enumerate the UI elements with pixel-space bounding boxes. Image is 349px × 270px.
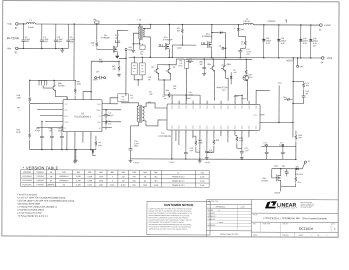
wire margining top <box>272 168 302 170</box>
svg-text:1.0uF: 1.0uF <box>200 185 204 187</box>
svg-text:50x: 50x <box>140 54 143 56</box>
svg-text:F1/N: F1/N <box>97 122 100 124</box>
diode D11 <box>92 150 95 152</box>
ground lower-left <box>75 150 77 159</box>
svg-text:3.3V/20A: 3.3V/20A <box>36 179 44 182</box>
terminal E4 -VOut <box>321 57 324 60</box>
svg-text:COMP: COMP <box>96 110 100 112</box>
svg-text:D6x: D6x <box>296 166 299 168</box>
svg-text:DC1101A-C: DC1101A-C <box>22 183 32 186</box>
title block texts <box>208 200 336 237</box>
capacitor C30 100uF 6.3V <box>262 25 266 58</box>
svg-text:R69: R69 <box>99 172 102 174</box>
svg-text:DC1101A-A: DC1101A-A <box>23 175 33 178</box>
svg-text:R84: R84 <box>143 172 146 174</box>
resistor R67 <box>295 175 297 182</box>
svg-text:C2-C5 1uF 100V TDK C3225X7R2A1: C2-C5 1uF 100V TDK C3225X7R2A105M (1210) <box>17 196 65 199</box>
terminal E5 <box>304 161 306 163</box>
transformer T1 <box>139 27 140 39</box>
wire T2 right bottom <box>142 120 167 126</box>
wire C1B node <box>119 57 126 59</box>
svg-text:C73: C73 <box>148 102 151 104</box>
svg-text:0.039: 0.039 <box>88 176 92 178</box>
svg-text:Q3: Q3 <box>151 67 154 69</box>
inductor L1 1.0uH <box>26 23 35 24</box>
op-amp U1 LTC3723EGN-1 <box>63 100 102 132</box>
svg-text:VDR: VDR <box>274 166 279 168</box>
capacitor C39 220uF 6.3V <box>309 25 313 58</box>
gate comb Q6 <box>115 40 121 43</box>
wire Q6 gate <box>96 40 98 41</box>
capacitor C7B 22nF <box>184 147 188 159</box>
svg-text:n/a: n/a <box>63 184 65 186</box>
capacitor C79 2.2nF <box>240 148 244 156</box>
svg-text:2.2nF: 2.2nF <box>244 150 248 152</box>
svg-text:R59: R59 <box>216 140 219 142</box>
svg-text:R4x: R4x <box>283 97 286 99</box>
svg-text:PA0815-B-5:2:1: PA0815-B-5:2:1 <box>172 180 184 183</box>
wire Q9 to U1 <box>55 91 67 100</box>
svg-text:DWG NO:: DWG NO: <box>283 223 289 225</box>
wire C1B drop <box>125 50 127 95</box>
version table <box>21 170 210 188</box>
U2 top pin stubs <box>171 101 173 104</box>
customer notice box <box>147 201 210 235</box>
capacitor C35 opt <box>303 90 305 94</box>
terminal E3 +VOut <box>320 24 323 27</box>
gate comb Q12 <box>201 42 205 45</box>
capacitor C31 100uF 6.3V <box>277 25 281 58</box>
wire Q8 to U2 <box>213 71 215 101</box>
svg-text:Si7336ADP: Si7336ADP <box>163 38 173 41</box>
svg-text:LTC3723EGN-1: LTC3723EGN-1 <box>74 115 92 118</box>
ground Q6 source <box>116 54 118 56</box>
capacitor C76 47uF <box>205 148 209 156</box>
svg-text:470pF: 470pF <box>35 130 41 132</box>
svg-text:PA0805-A-4:1:1: PA0805-A-4:1:1 <box>172 175 184 178</box>
svg-text:PA0811-A-4:2:1: PA0811-A-4:2:1 <box>172 184 184 187</box>
resistor R52 100 <box>91 60 119 62</box>
svg-text:R48: R48 <box>88 172 91 174</box>
wire bus down to U1 pin <box>29 80 30 81</box>
wire U2 top bus <box>172 94 200 96</box>
resistor R52 <box>186 60 193 62</box>
svg-text:-VOut: -VOut <box>326 57 332 60</box>
svg-text:DC1101A-B: DC1101A-B <box>22 179 32 182</box>
svg-text:2.2uF: 2.2uF <box>200 181 204 183</box>
resistor R48 10R <box>118 61 120 64</box>
svg-text:Fax (408) 434-0507: Fax (408) 434-0507 <box>300 207 312 209</box>
svg-text:PC406: PC406 <box>248 77 253 79</box>
wire margining bottom <box>281 182 296 186</box>
wire output sense drop <box>292 58 294 138</box>
resistor box R54 <box>139 63 145 75</box>
svg-text:CUSTOMER NOTICE: CUSTOMER NOTICE <box>164 203 193 207</box>
svg-text:R5B: R5B <box>179 60 182 62</box>
diode D4B <box>237 25 239 28</box>
wire +VOUT bus lower <box>130 158 295 161</box>
wire T1 primary top lead <box>139 24 141 26</box>
svg-text:SD: SD <box>98 128 100 130</box>
svg-text:COOPER HCP0703-1R0-R: COOPER HCP0703-1R0-R <box>17 210 44 212</box>
svg-text:CHECKED: CHECKED <box>208 213 215 215</box>
svg-text:FS: FS <box>64 128 66 130</box>
capacitor C68 10pF <box>285 169 289 177</box>
svg-text:536: 536 <box>133 185 136 187</box>
wire VCC rail <box>176 58 184 60</box>
svg-text:CMPSH1-4: CMPSH1-4 <box>47 184 56 186</box>
logo address <box>300 201 314 209</box>
svg-text:1.40K: 1.40K <box>140 71 144 73</box>
svg-text:R82: R82 <box>122 172 125 174</box>
transistor Q3 <box>154 68 159 74</box>
opto Q07 PS2801 <box>243 75 248 80</box>
terminal E2 -VIn <box>15 47 18 50</box>
svg-text:OF: OF <box>318 235 320 237</box>
svg-text:250V: 250V <box>134 146 139 148</box>
resistor R6 1.2 <box>244 40 246 45</box>
svg-text:Vout/Iout: Vout/Iout <box>37 171 44 174</box>
U2 right pin stub <box>260 114 264 116</box>
capacitor C4 1.0uF 100V <box>54 24 58 49</box>
svg-text:2490: 2490 <box>17 97 21 99</box>
transistor Q4 <box>166 68 171 74</box>
svg-text:R5x: R5x <box>98 145 101 147</box>
ground C33 <box>129 156 131 159</box>
ground U1 <box>73 160 77 164</box>
svg-text:D1: D1 <box>50 172 52 174</box>
gate comb Q1a <box>158 44 162 47</box>
svg-text:5.0V/20A: 5.0V/20A <box>36 183 44 186</box>
resistor box R56 5.1K <box>118 94 129 102</box>
svg-text:100: 100 <box>108 123 111 125</box>
svg-text:910: 910 <box>154 176 157 178</box>
wire T2 right top <box>142 103 167 108</box>
wire T1 secondary leads <box>143 24 150 28</box>
svg-text:LTC3723EGN-1, LTC3708EGN, 36V: LTC3723EGN-1, LTC3708EGN, 36V - 72Vin Fo… <box>263 217 327 220</box>
svg-text:TECHNOLOGY: TECHNOLOGY <box>277 207 298 209</box>
svg-text:100K: 100K <box>198 142 203 144</box>
svg-text:D28: D28 <box>62 172 65 174</box>
wire T1 tap stub <box>133 33 139 44</box>
svg-text:100: 100 <box>99 62 102 64</box>
svg-text:22nF: 22nF <box>189 150 193 152</box>
svg-text:CMPSH1-4: CMPSH1-4 <box>60 180 69 182</box>
svg-text:10pF: 10pF <box>284 171 288 173</box>
capacitor C3 1.0uF 100V <box>40 24 44 49</box>
svg-text:R6x: R6x <box>298 182 301 184</box>
svg-text:R81: R81 <box>111 172 114 174</box>
svg-text:100V: 100V <box>57 41 62 43</box>
svg-text:R52 0.1: R52 0.1 <box>186 59 192 61</box>
transistor Q8B <box>221 66 226 72</box>
svg-text:512: 512 <box>177 30 180 32</box>
wire left rail <box>29 80 31 95</box>
wire under boxes <box>134 75 142 80</box>
svg-text:1uF: 1uF <box>130 97 133 99</box>
wire T2 left bottom <box>131 122 139 143</box>
svg-text:R83: R83 <box>133 172 136 174</box>
svg-text:PMEG4005: PMEG4005 <box>295 174 303 176</box>
svg-text:C38 Sanyo 6TPE220M: C38 Sanyo 6TPE220M <box>17 203 40 205</box>
svg-text:2.4: 2.4 <box>133 71 135 73</box>
svg-text:604: 604 <box>298 137 301 139</box>
svg-text:CS: CS <box>99 116 101 118</box>
svg-text:R41: R41 <box>77 172 80 174</box>
DNP circle C76b <box>266 144 268 146</box>
transistor Q9B FZT955 <box>51 85 56 91</box>
diode D09 <box>230 76 233 78</box>
svg-text:VCC: VCC <box>178 65 183 67</box>
svg-text:MMBT2722A: MMBT2722A <box>217 86 229 89</box>
wire bias gnd bus <box>295 146 297 159</box>
wire R5B down <box>185 68 187 100</box>
capacitor C5 1.0uF 100V <box>66 24 70 49</box>
notes text <box>17 193 74 218</box>
op-amp U2 LTC3708EGN <box>167 104 260 130</box>
svg-text:15.0K: 15.0K <box>16 132 22 134</box>
title block frame <box>207 199 339 237</box>
svg-text:2.2uF: 2.2uF <box>200 177 204 179</box>
resistor R40 512 <box>181 25 183 27</box>
svg-text:L2 Coil Tronics HC1-R87: L2 Coil Tronics HC1-R87 <box>17 212 42 215</box>
svg-text:R6x: R6x <box>166 90 169 92</box>
svg-text:R5x: R5x <box>133 65 136 67</box>
svg-text:+VOUT: +VOUT <box>241 98 247 100</box>
svg-text:Si7336ADP: Si7336ADP <box>202 35 213 38</box>
terminal TP C37 left <box>95 77 97 79</box>
resistor R59 <box>213 138 215 145</box>
svg-text:100V: 100V <box>43 41 48 43</box>
diode D5 <box>212 32 219 34</box>
svg-text:Si7450DP: Si7450DP <box>101 37 111 39</box>
terminal TP C37 right <box>104 77 106 79</box>
svg-text:910: 910 <box>133 180 136 182</box>
svg-text:LTC3708EGN: LTC3708EGN <box>158 136 171 138</box>
svg-text:*: * <box>137 20 138 22</box>
resistor R44 <box>284 98 292 100</box>
ground U2 center <box>198 159 202 163</box>
U2 bottom pin wires <box>171 130 173 159</box>
svg-text:VCC: VCC <box>278 83 283 85</box>
svg-text:6: 6 <box>19 110 20 112</box>
svg-text:-VOUT: -VOUT <box>274 193 281 195</box>
svg-text:+VOUT: +VOUT <box>233 96 239 98</box>
svg-text:0.039: 0.039 <box>88 180 92 182</box>
svg-text:+VOut: +VOut <box>324 24 331 27</box>
capacitor C47 4.7uF 25V <box>240 47 245 49</box>
ground R48 <box>117 73 121 77</box>
wire R55 column feed <box>90 61 92 91</box>
svg-text:CMPSH1-4: CMPSH1-4 <box>60 176 69 178</box>
wire left rail lower <box>29 104 31 131</box>
svg-text:BUFL: BUFL <box>65 116 69 118</box>
svg-text:FB/PV: FB/PV <box>254 115 258 117</box>
svg-text:+VIn: +VIn <box>7 23 13 26</box>
svg-text:VIn: VIn <box>98 142 101 144</box>
svg-text:C6x: C6x <box>282 166 285 168</box>
svg-text:5.1K: 5.1K <box>122 99 125 101</box>
svg-text:470pF: 470pF <box>108 115 113 117</box>
svg-text:6.2R: 6.2R <box>239 140 244 142</box>
svg-text:-VIn: -VIn <box>7 47 12 50</box>
svg-text:C36: C36 <box>201 172 204 174</box>
svg-text:1nF: 1nF <box>164 98 167 100</box>
svg-text:SHEET: SHEET <box>299 235 304 237</box>
svg-text:1.0B: 1.0B <box>179 63 182 65</box>
svg-text:1.2: 1.2 <box>241 44 243 46</box>
resistor R16 2490 <box>29 95 31 103</box>
svg-text:0: 0 <box>93 45 94 47</box>
svg-text:TITLE:: TITLE: <box>253 214 258 216</box>
svg-text:VERSION: VERSION <box>23 172 32 174</box>
terminal C1B <box>125 48 127 50</box>
svg-text:+VOUT: +VOUT <box>169 162 176 164</box>
terminal E1 +VIn <box>16 23 19 26</box>
wire T1 primary bottom lead <box>139 39 141 44</box>
wire Q3 Q4 emitters <box>159 74 171 80</box>
wire T2 left top <box>121 103 139 106</box>
svg-text:Q07: Q07 <box>249 74 253 76</box>
logo Linear Technology <box>265 201 277 208</box>
svg-text:V5: V5 <box>219 46 221 48</box>
wire U6 drop <box>96 24 98 39</box>
svg-text:VCAP: VCAP <box>177 47 183 50</box>
svg-text:150pF: 150pF <box>189 94 194 96</box>
U2 pin name smudges <box>172 105 256 129</box>
wire VCAP stub <box>172 44 196 46</box>
wire output bottom bus <box>129 56 322 59</box>
svg-text:E4x: E4x <box>300 66 303 68</box>
wire top bus <box>35 23 243 26</box>
ground C79 <box>240 156 244 160</box>
svg-text:R85: R85 <box>154 172 157 174</box>
DNP circle C77 <box>282 144 284 146</box>
wire bottom input bus <box>18 47 68 49</box>
svg-text:0: 0 <box>112 176 113 178</box>
U1 top pin wires <box>74 96 76 99</box>
svg-text:910: 910 <box>154 181 157 183</box>
svg-text:-VOUT: -VOUT <box>286 59 294 62</box>
svg-text:0.022: 0.022 <box>87 184 91 186</box>
wire Q6 drain to T1 <box>117 30 128 45</box>
U1 left pin wires <box>30 102 63 104</box>
svg-text:2N7002: 2N7002 <box>261 180 268 182</box>
capacitor C2 1.0uF 100V <box>21 24 25 49</box>
svg-text:100K: 100K <box>77 84 82 86</box>
svg-text:220pF: 220pF <box>93 79 98 81</box>
wire input rail drop <box>73 24 75 80</box>
svg-text:VCC: VCC <box>65 104 68 106</box>
transistor Q8A <box>210 66 215 72</box>
svg-text:T1: T1 <box>177 172 179 174</box>
wire top bus right <box>253 24 319 26</box>
capacitor C38 220uF 6.3V <box>299 25 303 58</box>
svg-text:E5: E5 <box>308 161 310 163</box>
wire +Vin to L1 <box>18 23 26 25</box>
transformer T2 <box>137 106 139 122</box>
svg-text:+VOUT: +VOUT <box>267 20 276 23</box>
resistor R66 <box>245 69 247 75</box>
U1 bottom pin wires <box>66 132 68 150</box>
svg-text:+VOUT: +VOUT <box>133 162 140 164</box>
resistor array R49 <box>38 80 48 85</box>
svg-text:R5x: R5x <box>122 96 125 98</box>
svg-text:0.87uH: 0.87uH <box>243 21 250 23</box>
ground input <box>62 48 63 49</box>
resistor R4B 0 <box>96 41 98 47</box>
svg-text:R5x: R5x <box>141 65 144 67</box>
svg-text:100V: 100V <box>25 41 30 43</box>
svg-text:1.0uH: 1.0uH <box>28 27 34 29</box>
svg-text:T1 Pulse PA0297 (E1.6+H3.1:1: T1 Pulse PA0297 (E1.6+H3.1:1 <box>17 215 48 218</box>
resistor box R5B on rail <box>184 60 189 69</box>
wire lower-left bus <box>29 148 95 150</box>
terminal E4x testpoint <box>297 58 299 65</box>
svg-text:Q4: Q4 <box>173 67 176 69</box>
svg-text:opt: opt <box>115 36 118 39</box>
svg-text:For All The Versions: For All The Versions <box>18 193 38 196</box>
svg-text:FB/N: FB/N <box>97 104 100 106</box>
svg-text:ENGINEER: ENGINEER <box>208 219 215 221</box>
resistor box R53 <box>131 63 137 75</box>
svg-text:REV: REV <box>332 223 335 225</box>
resistor R70 10K <box>293 80 303 82</box>
svg-text:FZT955: FZT955 <box>58 85 65 87</box>
svg-text:1.40K: 1.40K <box>132 68 136 70</box>
resistor R58b 100K <box>195 139 197 146</box>
svg-text:L1 Vishay IHLP-2525CZ-ER-1R0-M: L1 Vishay IHLP-2525CZ-ER-1R0-M01 or <box>17 206 57 209</box>
ground T1 return <box>132 44 134 49</box>
wire bias bus <box>261 145 296 147</box>
resistor R65 604 <box>295 130 297 133</box>
svg-text:36-72VIN: 36-72VIN <box>7 36 19 40</box>
snubber C8x <box>140 45 145 50</box>
wire U2 top right <box>256 90 270 101</box>
svg-text:2.5V/20A: 2.5V/20A <box>36 175 44 178</box>
wire FB to U2 <box>260 121 293 123</box>
svg-text:C30,C38 100uF 6.3V CER TDK C32: C30,C38 100uF 6.3V CER TDK C3225X5R0J107… <box>17 200 74 202</box>
svg-text:C3F: C3F <box>96 71 99 73</box>
wire gate-drive bus <box>30 79 74 81</box>
svg-text:910: 910 <box>133 176 136 178</box>
svg-text:DC1101A: DC1101A <box>299 227 314 231</box>
svg-text:100pF: 100pF <box>186 98 191 100</box>
svg-text:SIZE: SIZE <box>253 223 256 225</box>
svg-text:+VOUT: +VOUT <box>204 162 211 164</box>
U1 right pin wires <box>102 103 118 105</box>
svg-text:0: 0 <box>112 180 113 182</box>
wire left rail to bottom bus <box>28 140 30 149</box>
